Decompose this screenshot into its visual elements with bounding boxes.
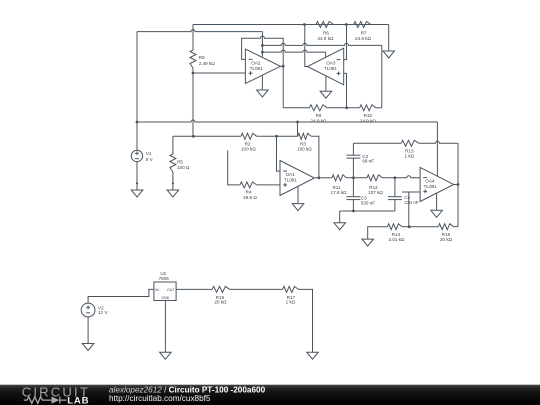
wire: R14 left to ground: [368, 227, 388, 239]
CircuitLab logo wire-resistor-diode glyph: [24, 397, 67, 404]
svg-text:R8: R8: [199, 55, 205, 60]
resistor R2: [241, 133, 257, 139]
resistor R8: [192, 25, 194, 51]
svg-text:TL081: TL081: [424, 184, 437, 189]
wire: V1 rail horizontal y=31.6 with hop over R8: [137, 30, 262, 32]
wire: V2 top to U2 IN: [88, 289, 154, 303]
capacitor C2: [352, 143, 354, 155]
svg-text:V1: V1: [146, 151, 152, 156]
svg-text:2.49 kΩ: 2.49 kΩ: [199, 61, 216, 66]
node: dot R12/C4 top: [394, 176, 397, 179]
voltage source V2 12V: [81, 303, 95, 317]
svg-text:OA2: OA2: [251, 61, 261, 66]
svg-text:OA4: OA4: [425, 179, 435, 184]
resistor R13: [401, 140, 419, 146]
svg-text:17.8 kΩ: 17.8 kΩ: [331, 190, 348, 195]
wire: C2 top to R13 loop: [353, 142, 401, 144]
capacitor C4: [394, 178, 396, 197]
svg-text:OA1: OA1: [286, 172, 296, 177]
ground (below OA1): [292, 204, 304, 211]
resistor R9: [309, 105, 327, 111]
op-amp OA1: [280, 161, 314, 196]
wire: OA2 feedback loop minus stub: [242, 36, 284, 66]
resistor R3: [298, 133, 311, 139]
diode triangle: [52, 397, 60, 404]
node: supply tap dot to wire y=45.4: [261, 44, 264, 47]
wire: OA3 V+ pin stub: [325, 52, 327, 57]
wire: V2 bottom to ground: [87, 317, 89, 344]
svg-text:68 nF: 68 nF: [362, 159, 374, 164]
wire: OA2 output down to R9 row: [282, 66, 284, 108]
wire: OA1 out to R11: [319, 177, 332, 179]
wire: R15 right to output vertical: [454, 226, 458, 228]
resistor R19: [212, 286, 230, 292]
svg-text:12 V: 12 V: [98, 310, 108, 315]
capacitor C3: [352, 178, 354, 197]
node: OA4 output dot: [457, 183, 460, 186]
resistor R5: [172, 136, 174, 154]
resistor R15: [438, 224, 453, 230]
wire: OA1 V- to ground: [297, 186, 299, 203]
wire: OA4 V- to ground: [436, 193, 438, 210]
ground (R17): [307, 352, 319, 359]
wire: R4 right to OA1 plus: [257, 184, 280, 186]
wire: R17 right to ground: [298, 289, 312, 352]
svg-text:R4: R4: [245, 190, 251, 195]
svg-text:100 kΩ: 100 kΩ: [241, 147, 256, 152]
wire: OA3 plus stub down to R9/R10 midpoint: [344, 73, 347, 107]
node: dot R2/R3/OA1 minus: [275, 135, 278, 138]
wire: supply feed to OA3 V+ y=52.1: [262, 50, 325, 52]
resistor R11: [332, 175, 347, 181]
ground (below V2): [82, 344, 94, 351]
resistor R10: [360, 105, 376, 111]
node: dot at V1 rail tap y=122: [136, 121, 139, 124]
wire: left vertical from rail corner down to V1: [136, 32, 138, 151]
svg-text:24.9 kΩ: 24.9 kΩ: [311, 118, 328, 123]
wire: rail vertical down to R3 left terminal: [297, 122, 299, 136]
wire: vertical from y=45.4 to R10 right: [381, 45, 383, 107]
ground (below V1): [131, 190, 143, 197]
wire: R2 right to R3 left: [257, 135, 298, 137]
svg-text:1 kΩ: 1 kΩ: [286, 300, 296, 305]
svg-text:GND: GND: [161, 296, 169, 300]
svg-text:TL081: TL081: [324, 66, 337, 71]
wire: +5V rail top segment from R8 top to ground, y=24.5: [193, 24, 389, 26]
wire: OA3 output stub up to R6 left node: [305, 25, 308, 67]
node: OA2 output dot: [282, 65, 285, 68]
svg-text:100 Ω: 100 Ω: [177, 165, 190, 170]
svg-text:20 kΩ: 20 kΩ: [440, 237, 453, 242]
resistor R4: [240, 182, 257, 188]
resistor R14: [388, 224, 403, 230]
svg-text:330 nF: 330 nF: [361, 200, 375, 205]
svg-text:R5: R5: [177, 159, 183, 164]
node A: junction dot R6 left / OA3 output feedback: [303, 23, 306, 26]
wire: V1 rail y=122 to OA4 V+: [137, 120, 437, 122]
wire: OA2 plus input from R8 node: [193, 72, 245, 74]
wire: OA2 V- to ground stub: [261, 75, 263, 90]
node: supply tap dot to wire y=52.1: [261, 51, 264, 54]
wire: OA3 V- to ground: [325, 76, 327, 91]
wire: OA3 minus stub up to R6/R7 midpoint: [344, 25, 347, 60]
svg-text:http://circuitlab.com/cux8bf5: http://circuitlab.com/cux8bf5: [109, 394, 211, 403]
svg-text:IN: IN: [155, 288, 159, 292]
wire: R7 right to ground: [388, 25, 390, 52]
regulator U2 7805: [154, 282, 176, 301]
svg-text:24.9 kΩ: 24.9 kΩ: [318, 36, 335, 41]
node: dot C2/C3/R11/R12: [352, 176, 355, 179]
svg-text:7805: 7805: [159, 276, 170, 281]
wire: R11 to R12: [347, 177, 368, 179]
resistor R17: [283, 286, 299, 292]
node: dot R8 bottom / OA2 plus wire: [192, 72, 195, 75]
svg-text:100 kΩ: 100 kΩ: [297, 147, 312, 152]
svg-text:OUT: OUT: [167, 288, 175, 292]
ground (top right, after R7): [383, 51, 395, 58]
node: dot R9/R10 midpoint: [345, 106, 348, 109]
wire: OA4 plus input leg from R14/R15 node: [402, 191, 420, 193]
node: dot C3 bottom: [352, 210, 355, 213]
node B: junction dot R6/R7 midpoint: [345, 23, 348, 26]
wire: V1 bottom to ground: [136, 162, 138, 190]
wire: OA2 output stub: [280, 65, 283, 67]
svg-text:TL081: TL081: [284, 178, 297, 183]
wire: supply vertical to OA2 V+ pin: [261, 32, 263, 57]
wire: R13 loop down to output node: [457, 143, 459, 184]
ground (below OA2): [257, 90, 269, 97]
ground (R14 left): [362, 239, 374, 246]
wire: U2 GND to ground: [164, 301, 166, 353]
node: dot R8 chain joins: [192, 135, 195, 138]
wire: C3/C4 bottoms to ground: [340, 210, 395, 212]
wire: OA1 minus input from R2/R3 node: [277, 136, 281, 171]
resistor R6: [316, 22, 334, 28]
wire: R3 right to OA1 output: [311, 136, 319, 178]
wire: dangling stub + R4 to OA1 plus: [228, 150, 240, 185]
ground (below OA4): [431, 210, 443, 217]
wire: U2 OUT to R19: [176, 288, 212, 290]
wire: R19 to R17: [230, 288, 283, 290]
wire: R12 right to OA4 minus with hop over plus-leg: [382, 176, 420, 178]
wire: OA4 output down to R15 right: [457, 185, 459, 227]
ground (below OA3): [320, 91, 332, 98]
svg-text:5 V: 5 V: [146, 157, 154, 162]
ground (below U2): [160, 352, 172, 359]
wire: R5/R8 node row y=136.3: [173, 135, 241, 137]
op-amp OA2: [245, 49, 280, 83]
resistor R12: [367, 175, 382, 181]
op-amp OA4: [420, 167, 454, 201]
wire: OA4 output stub: [454, 184, 458, 186]
ground (below R5): [167, 190, 179, 197]
wire: R13 right to OA4 output, hop over V+ vertical: [419, 141, 458, 143]
svg-text:24.9 kΩ: 24.9 kΩ: [355, 36, 372, 41]
svg-text:1 kΩ: 1 kΩ: [405, 153, 415, 158]
svg-text:LAB: LAB: [67, 395, 89, 405]
svg-text:OA3: OA3: [326, 61, 336, 66]
resistor R7: [354, 22, 372, 28]
wire: bridge wire y=45.4 to R10 right: [262, 43, 381, 45]
svg-text:TL081: TL081: [250, 66, 263, 71]
wire: R14 to R15: [402, 226, 438, 228]
svg-text:3.01 kΩ: 3.01 kΩ: [389, 237, 406, 242]
node: rail tap dot to R3 left: [296, 121, 299, 124]
svg-text:24.9 kΩ: 24.9 kΩ: [360, 118, 377, 123]
wire: OA1 output stub: [314, 177, 319, 179]
node: dot R14/R15 midpoint: [408, 225, 411, 228]
wire: R9/R10 row y=107.8: [283, 107, 309, 109]
svg-text:107 kΩ: 107 kΩ: [368, 190, 383, 195]
ground (C3/C4): [334, 223, 346, 230]
node: OA1 output dot: [318, 176, 321, 179]
svg-text:220 nF: 220 nF: [404, 200, 418, 205]
voltage source V1 5V: [131, 150, 142, 161]
op-amp OA3 (left-pointing): [307, 48, 343, 85]
wire: rail vertical down to OA4 V+ pin: [436, 122, 438, 176]
svg-text:49.9 Ω: 49.9 Ω: [243, 195, 257, 200]
svg-text:20 kΩ: 20 kΩ: [214, 300, 227, 305]
